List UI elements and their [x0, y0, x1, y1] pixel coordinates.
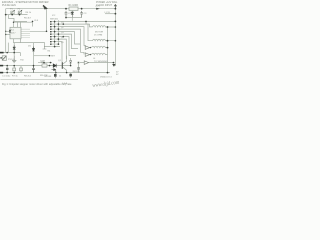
svg-text:C1 100u: C1 100u	[2, 76, 11, 78]
wire top rail	[6, 8, 116, 10]
svg-text:BD139: BD139	[45, 76, 52, 78]
wire stair 1	[59, 21, 116, 27]
IC U1 box	[10, 27, 21, 39]
node ic pin	[13, 22, 14, 23]
wire pot line	[1, 53, 21, 56]
wire ic bottom	[8, 39, 51, 53]
node low line b	[50, 62, 52, 64]
wire d2 vertical	[62, 58, 71, 66]
node c1 bot	[6, 72, 8, 74]
wire stair 8	[55, 39, 67, 62]
node low line a	[43, 62, 45, 64]
node c1 top	[6, 65, 8, 67]
wire bottom rail A	[1, 65, 58, 67]
wire stair 5	[59, 32, 81, 44]
wire clock vertical	[30, 9, 47, 32]
diode D8 right rail	[112, 64, 115, 67]
node L2 tap	[107, 40, 109, 42]
driver tri 2	[85, 53, 89, 57]
node rail ic pins	[5, 31, 6, 32]
wire bus left stubs	[51, 22, 59, 47]
capacitor C8 plates	[77, 68, 80, 69]
terminal T2	[0, 65, 3, 67]
svg-text:1N5401 X 4: 1N5401 X 4	[100, 77, 112, 79]
node clk corner	[46, 31, 48, 33]
wire hang R2	[13, 66, 15, 73]
svg-text:R7 1k: R7 1k	[12, 76, 19, 78]
diode D6b	[52, 68, 56, 72]
wire +v stub	[105, 13, 115, 15]
svg-text:R5 4k7: R5 4k7	[24, 17, 32, 19]
node d6	[49, 65, 51, 67]
wire ic top feed	[14, 22, 33, 27]
driver tri 3	[84, 61, 88, 65]
svg-text:R6 1k: R6 1k	[26, 12, 32, 14]
wire q2 riser	[78, 63, 80, 73]
node p1	[11, 14, 13, 16]
wire diode feed	[49, 65, 63, 67]
zener Z1 below rail	[54, 73, 57, 79]
wire bus column 1	[54, 20, 56, 47]
svg-text:SN7400: SN7400	[50, 19, 59, 21]
pot P2	[18, 10, 22, 14]
coil L3	[92, 46, 108, 47]
+V symbol	[114, 5, 117, 9]
junction dots	[5, 8, 117, 74]
wire ic left pins	[6, 31, 10, 34]
node stair dots	[63, 23, 65, 25]
node snub lb	[65, 17, 67, 19]
ground GND1	[12, 56, 16, 63]
wire stair 6	[59, 34, 79, 49]
coil L1	[93, 26, 108, 27]
transistor Q1 lines	[62, 56, 66, 73]
svg-text:+12V: +12V	[95, 6, 101, 8]
node r7 top	[13, 65, 15, 67]
pot P3 box	[0, 56, 6, 61]
node bus pads	[50, 21, 51, 22]
svg-text:R8 2k2: R8 2k2	[24, 76, 32, 78]
node snub r	[81, 8, 83, 10]
diode D6	[53, 64, 56, 68]
driver tri 1	[85, 46, 89, 50]
capacitor C5 plates	[6, 68, 9, 69]
frame bottom	[1, 79, 79, 81]
node c8 top	[78, 62, 80, 64]
node r7 bot	[13, 72, 15, 74]
wire low line	[38, 62, 52, 64]
resistor R8 box	[20, 68, 23, 71]
coil L2	[93, 39, 108, 40]
node L1 tap	[107, 26, 109, 28]
wire stair 7	[59, 37, 77, 56]
wire right rail	[114, 9, 116, 66]
capacitor C2	[65, 11, 68, 18]
diode D1	[71, 11, 74, 18]
diode D7	[70, 61, 72, 65]
node snub l	[65, 8, 67, 10]
pot P1	[11, 10, 15, 14]
node d7	[70, 65, 72, 67]
wire stair 2	[59, 24, 93, 41]
node bus dots	[54, 21, 56, 23]
diode D4	[13, 45, 16, 53]
node d6b	[55, 72, 57, 74]
rail arrow	[96, 8, 100, 10]
svg-text:25 OHM: 25 OHM	[94, 35, 102, 37]
snubber bottom wire	[66, 18, 82, 21]
terminal T3	[0, 72, 3, 74]
wire stair 4	[59, 29, 85, 54]
wire ic right pins	[21, 29, 30, 37]
wire bottom right line	[80, 62, 114, 64]
svg-text:CLK: CLK	[34, 20, 39, 22]
node bottom right	[113, 62, 115, 64]
wire mid stub	[43, 46, 47, 49]
svg-text:R1 100R: R1 100R	[69, 4, 79, 7]
capacitor C3	[80, 11, 83, 18]
node q1 e	[66, 72, 68, 74]
transistor Q1 bar	[61, 62, 63, 69]
zener Z2 below rail	[69, 73, 72, 78]
wire bus column 2	[57, 20, 59, 44]
wire input line	[6, 14, 28, 16]
resistor R7 box	[13, 68, 16, 71]
wire hang C1	[6, 66, 8, 73]
wire hang R3	[20, 66, 22, 73]
svg-text:PULSE GEN: PULSE GEN	[2, 4, 16, 7]
terminal T1	[0, 52, 4, 54]
node rail right mid	[115, 21, 117, 23]
wire under pots	[12, 11, 19, 14]
capacitor C6 plates	[32, 66, 35, 73]
node tri noses	[90, 47, 91, 48]
svg-text:2N3055: 2N3055	[73, 71, 81, 73]
resistor R9 series box	[42, 64, 47, 67]
svg-text:TO WINDING: TO WINDING	[94, 61, 108, 63]
node L3 tap	[107, 47, 109, 49]
resistor R1 box	[69, 7, 78, 10]
svg-text:0.5 A: 0.5 A	[62, 82, 68, 85]
wire mid line	[34, 55, 50, 57]
wire sub loop	[9, 15, 28, 22]
node clk	[32, 21, 34, 23]
node rail-left	[5, 14, 7, 16]
node p2	[19, 14, 21, 16]
node +v stub	[115, 13, 117, 15]
svg-text:P3 10k: P3 10k	[8, 59, 16, 61]
node rail links	[115, 26, 117, 28]
node rail right top	[115, 8, 117, 10]
diode D5	[32, 47, 35, 51]
coil L4	[92, 53, 108, 54]
svg-text:L1 5V: L1 5V	[105, 12, 111, 14]
node rail B right	[107, 72, 109, 74]
node c6 top	[33, 65, 35, 67]
wire center tap rail	[108, 27, 116, 73]
wire left rail	[5, 9, 7, 53]
wire cap33 vertical	[33, 43, 35, 66]
wire bottom rail B	[1, 72, 111, 74]
node mid line end	[49, 55, 51, 57]
svg-text:MOTOR: MOTOR	[95, 32, 104, 34]
IC U1 pin marks	[9, 30, 11, 32]
wire stair 3	[59, 27, 86, 48]
node pot line	[6, 52, 8, 54]
clock arrow	[43, 5, 47, 9]
